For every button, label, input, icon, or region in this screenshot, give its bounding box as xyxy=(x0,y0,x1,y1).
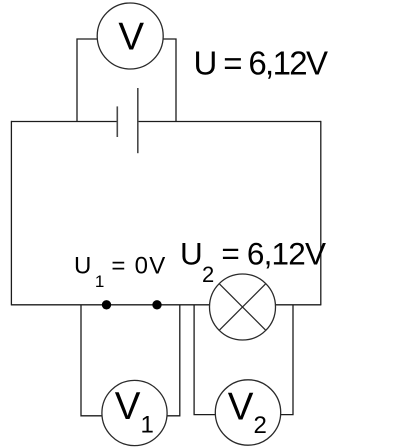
wire: voltmeter V1 left branch xyxy=(81,305,102,416)
lamp L1 (body) xyxy=(210,274,276,340)
wire: voltmeter V2 right branch xyxy=(279,305,293,415)
voltmeter U (top meter body) xyxy=(97,3,163,69)
svg-text:V: V xyxy=(118,15,144,58)
svg-text:U = 6,12V: U = 6,12V xyxy=(194,45,329,82)
wire: top wire right segment (battery right lead) xyxy=(138,121,321,123)
wire: right side of main loop xyxy=(320,121,322,306)
voltmeter V2 (body) xyxy=(215,380,280,445)
lamp L1 cross stroke 2 xyxy=(219,284,266,331)
node A (junction dot left) xyxy=(102,300,111,309)
wire: left side of main loop xyxy=(10,121,12,306)
voltmeter V1 (body) xyxy=(102,380,167,445)
battery B1: short plate (negative) xyxy=(116,106,118,137)
battery B1: long plate (positive) xyxy=(137,88,139,153)
wire: bottom wire of main loop xyxy=(11,304,321,306)
wire: voltmeter V right lead (down to top wire) xyxy=(163,39,177,122)
wire: top wire left segment (battery left lead) xyxy=(11,121,117,123)
wire: voltmeter V left lead (down to top wire) xyxy=(77,39,98,122)
wire: voltmeter V2 left branch xyxy=(194,305,216,415)
wire: voltmeter V1 right branch xyxy=(167,305,180,416)
lamp L1 cross stroke 1 xyxy=(219,284,266,331)
node B (junction dot right) xyxy=(152,300,161,309)
